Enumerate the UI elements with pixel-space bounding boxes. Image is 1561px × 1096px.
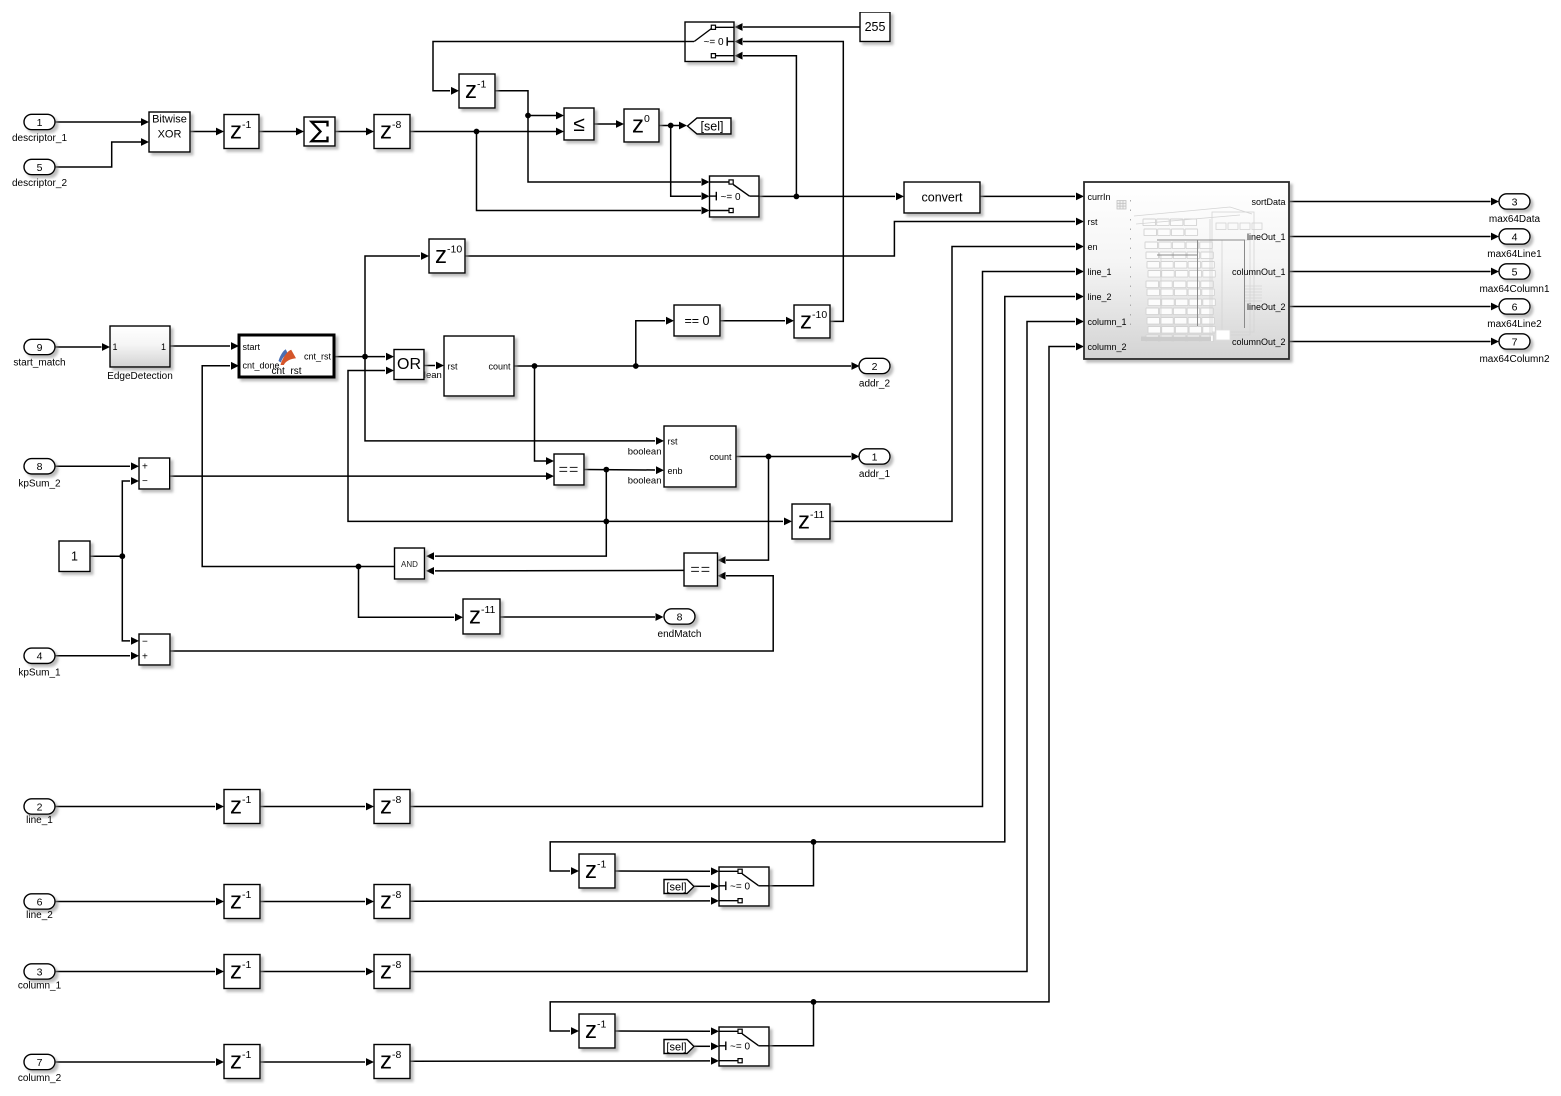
from tag [sel] 1 xyxy=(664,880,694,894)
unit delay z-1 fb1 xyxy=(579,854,615,888)
arrow into OR in1 xyxy=(386,353,394,361)
wire counter1 count to addr_2 xyxy=(514,365,851,367)
arrow into eq-b in1 xyxy=(718,556,726,564)
inport 8 kpSum_2 xyxy=(24,459,55,474)
wire OR to counter1 rst xyxy=(424,365,435,367)
unit delay z-1a xyxy=(224,115,259,149)
arrow into switch2 in2 xyxy=(702,192,710,200)
wire branch down to z-11b xyxy=(359,567,455,618)
svg-text:kpSum_2: kpSum_2 xyxy=(18,479,61,490)
svg-text:start_match: start_match xyxy=(13,358,65,369)
subtract1 block xyxy=(139,458,170,489)
svg-text:endMatch: endMatch xyxy=(658,629,702,640)
wire z-8 r4 to switch4 in3 xyxy=(410,1060,710,1062)
MATLAB function block cnt_rst xyxy=(239,335,334,377)
arrow into z-8 r2 xyxy=(366,898,374,906)
svg-text:max64Data: max64Data xyxy=(1489,214,1541,225)
svg-text:line_2: line_2 xyxy=(1088,292,1112,302)
relational eq-b (mirrored) xyxy=(684,553,718,586)
junction dot z-8a out xyxy=(474,129,480,135)
arrow into z-1fb1 xyxy=(571,867,579,875)
svg-text:2: 2 xyxy=(872,361,878,373)
svg-text:boolean: boolean xyxy=(628,475,662,486)
arrow into endMatch xyxy=(656,613,664,621)
wire branch down to switch2 in2 xyxy=(671,126,701,197)
svg-text:3: 3 xyxy=(1512,196,1518,208)
switch block S3 xyxy=(719,867,769,906)
arrow into LE in1 xyxy=(556,112,564,120)
wire sel2 to switch4 in2 xyxy=(694,1045,710,1047)
arrow into eq-b in2 xyxy=(718,572,726,580)
wire kpSum_2 to subtract1 plus xyxy=(55,465,130,467)
wire cnt_done net left to OR in2 xyxy=(348,371,606,522)
arrow into z-11a xyxy=(784,518,792,526)
from tag [sel] 2 xyxy=(664,1040,694,1054)
arrow into switch4 in1 xyxy=(711,1027,719,1035)
junction dot convert wire xyxy=(794,194,800,200)
unit delay z-1 r3 xyxy=(224,955,260,989)
svg-text:[sel]: [sel] xyxy=(666,1042,686,1054)
delay z-8 r1 xyxy=(374,790,410,824)
unit delay z-1 r4 xyxy=(224,1045,260,1079)
svg-text:1: 1 xyxy=(113,342,118,352)
svg-text:en: en xyxy=(1088,242,1098,252)
arrow into eq-a in2 xyxy=(546,472,554,480)
inport 3 column_1 xyxy=(24,964,55,979)
wire switch3 out loop xyxy=(769,842,814,886)
arrow into switch3 in2 xyxy=(711,882,719,890)
svg-text:==: == xyxy=(690,562,711,579)
wire z-1 r4 to z-8 r4 xyxy=(260,1061,365,1063)
svg-text:6: 6 xyxy=(37,896,43,908)
subsystem sorter (max64) xyxy=(1084,182,1289,359)
arrow into switch4 in3 xyxy=(711,1057,719,1065)
arrow into column_1 port xyxy=(1076,318,1084,326)
wire z-8a to LE in2 with branch xyxy=(410,131,556,133)
equals zero block xyxy=(674,305,720,336)
arrow into en xyxy=(1076,243,1084,251)
arrow into EdgeDetection xyxy=(102,343,110,351)
svg-text:rst: rst xyxy=(448,362,458,372)
wire LE to z0 xyxy=(594,123,616,125)
arrow into convert xyxy=(896,193,904,201)
svg-text:3: 3 xyxy=(37,966,43,978)
wire z-1 r1 to z-8 r1 xyxy=(260,806,365,808)
arrow into line_2 port xyxy=(1076,293,1084,301)
wire z0 to goto sel xyxy=(659,125,679,127)
svg-text:−: − xyxy=(142,637,148,648)
arrow into switch2 in3 xyxy=(702,207,710,215)
unit delay z-1 fb2 xyxy=(579,1014,615,1048)
wire descriptor_2 to XOR in2 xyxy=(55,142,141,167)
delay z-8 r3 xyxy=(374,955,410,989)
svg-text:8: 8 xyxy=(677,611,683,623)
junction dot cnt_rst out xyxy=(362,354,368,360)
svg-text:count: count xyxy=(488,362,511,372)
svg-text:max64Line1: max64Line1 xyxy=(1487,249,1542,260)
arrow into z-1 r3 xyxy=(216,968,224,976)
svg-text:columnOut_1: columnOut_1 xyxy=(1232,267,1286,277)
svg-text:cnt_rst: cnt_rst xyxy=(271,366,301,377)
arrow into rst xyxy=(1076,218,1084,226)
arrow into z0 xyxy=(616,120,624,128)
wire branch down to eq-b in1 xyxy=(726,457,769,561)
inport 6 line_2 xyxy=(24,894,55,909)
svg-text:column_1: column_1 xyxy=(18,981,62,992)
svg-text:1: 1 xyxy=(37,117,43,129)
wire counter2 count to addr_1 xyxy=(736,456,851,458)
wire convert to currIn xyxy=(980,195,1075,197)
svg-text:XOR: XOR xyxy=(158,129,182,141)
wire cnt_rst out to OR in1 xyxy=(334,356,385,358)
wire lineOut_2 to max64Line2 xyxy=(1289,306,1491,308)
outport 7 max64Column2 xyxy=(1499,334,1530,349)
svg-text:6: 6 xyxy=(1512,301,1518,313)
wire loop right to column_2 port xyxy=(814,347,1076,1002)
arrow into XOR in2 xyxy=(141,138,149,146)
svg-text:kpSum_1: kpSum_1 xyxy=(18,668,61,679)
wire 255 to switch1 in1 xyxy=(743,26,860,28)
junction dot eq-a out xyxy=(603,467,609,473)
svg-text:[sel]: [sel] xyxy=(666,882,686,894)
svg-text:255: 255 xyxy=(865,20,886,34)
wire sel1 to switch3 in2 xyxy=(694,885,710,887)
wire switch2 out to convert xyxy=(759,195,895,197)
arrow into switch1 in3 xyxy=(735,52,743,60)
svg-text:currIn: currIn xyxy=(1088,192,1111,202)
svg-text:descriptor_2: descriptor_2 xyxy=(12,178,67,189)
svg-text:convert: convert xyxy=(922,191,964,205)
arrow into OR in2 xyxy=(386,367,394,375)
wire AND out to cnt_done xyxy=(202,366,394,567)
svg-text:~= 0: ~= 0 xyxy=(730,1042,750,1053)
svg-text:+: + xyxy=(142,462,148,473)
wire XOR to z-1a xyxy=(190,131,216,133)
wire branch up to switch1 in3 xyxy=(743,56,796,197)
wire z-8 r3 to column_1 port xyxy=(410,322,1075,972)
wire branch up to eq0 xyxy=(636,321,665,366)
goto tag [sel] xyxy=(688,118,732,134)
svg-text:7: 7 xyxy=(37,1057,43,1069)
arrow into addr_2 xyxy=(852,362,860,370)
delay z0 xyxy=(624,109,659,142)
wire branch down to subtract2 minus xyxy=(122,556,130,641)
arrow into Sum xyxy=(296,128,304,136)
junction dot cnt_done net xyxy=(603,519,609,525)
svg-text:addr_1: addr_1 xyxy=(859,469,891,480)
arrow into subtract2 plus xyxy=(131,652,139,660)
wire eq0 to z-10b xyxy=(720,320,785,322)
svg-text:lineOut_2: lineOut_2 xyxy=(1247,302,1286,312)
sum block Sigma xyxy=(304,117,335,146)
svg-text:cnt_rst: cnt_rst xyxy=(304,352,332,362)
arrow into z-1fb2 xyxy=(571,1027,579,1035)
arrow into goto sel xyxy=(679,122,687,130)
wire branch up to z-10a xyxy=(365,256,420,357)
svg-text:lineOut_1: lineOut_1 xyxy=(1247,232,1286,242)
outport 5 max64Column1 xyxy=(1499,264,1530,279)
wire z-11a out to en xyxy=(830,247,1075,522)
inport 2 line_1 xyxy=(24,799,55,814)
wire columnOut_1 to max64Column1 xyxy=(1289,271,1491,273)
inport 9 start_match xyxy=(24,339,55,354)
arrow into subtract1 minus xyxy=(131,477,139,485)
arrow into switch3 in3 xyxy=(711,897,719,905)
svg-text:sortData: sortData xyxy=(1251,197,1285,207)
svg-text:4: 4 xyxy=(37,651,43,663)
outport 8 endMatch xyxy=(664,609,695,624)
svg-text:rst: rst xyxy=(1088,217,1098,227)
arrow into AND in1 xyxy=(426,552,434,560)
outport 2 addr_2 xyxy=(859,358,890,373)
svg-text:rst: rst xyxy=(668,437,678,447)
wire switch4 out loop xyxy=(769,1002,814,1046)
svg-text:columnOut_2: columnOut_2 xyxy=(1232,337,1286,347)
arrow into z-1 r2 xyxy=(216,898,224,906)
arrow into max64Column1 xyxy=(1491,268,1499,276)
wire subtract2 out loop to eq-b in2 xyxy=(170,576,774,651)
arrow into z-10a xyxy=(421,252,429,260)
delay z-8a xyxy=(374,115,410,149)
counter2 block xyxy=(664,426,736,487)
wire line_2 to z-1 r2 xyxy=(55,901,215,903)
arrow into z-8a xyxy=(366,128,374,136)
svg-text:2: 2 xyxy=(37,801,43,813)
outport 6 max64Line2 xyxy=(1499,299,1530,314)
wire branch up to subtract1 minus xyxy=(122,481,130,556)
arrow into counter1 rst xyxy=(436,362,444,370)
svg-text:5: 5 xyxy=(1512,266,1518,278)
junction dot z0 out xyxy=(668,123,674,129)
svg-text:8: 8 xyxy=(37,461,43,473)
wire subtract1 to eq-a in2 xyxy=(170,475,546,477)
wire EdgeDetection to start xyxy=(170,345,230,347)
delay z-11a xyxy=(792,504,830,539)
wire branch down from eq-a xyxy=(435,470,606,556)
svg-text:max64Line2: max64Line2 xyxy=(1487,319,1542,330)
arrow into max64Line2 xyxy=(1491,303,1499,311)
svg-text:7: 7 xyxy=(1512,336,1518,348)
arrow into subtract2 minus xyxy=(131,637,139,645)
switch block S1 (mirrored) xyxy=(685,22,734,62)
wire branch down to switch2 in1 xyxy=(528,116,701,183)
inport 1 descriptor_1 xyxy=(24,114,55,129)
outport 4 max64Line1 xyxy=(1499,229,1530,244)
wire eq-b out to AND in2 xyxy=(435,569,684,572)
svg-text:1: 1 xyxy=(872,451,878,463)
junction dot z-1b branch xyxy=(525,113,531,119)
switch block S2 xyxy=(710,176,760,217)
wire cnt_done net right to z-11a xyxy=(606,520,783,522)
junction dot count2 out xyxy=(766,454,772,460)
junction dot switch4 loop xyxy=(811,999,817,1005)
arrow into counter2 enb xyxy=(656,466,664,474)
arrow into eq-a in1 xyxy=(546,457,554,465)
wire loop left to z-1fb1 xyxy=(550,842,813,871)
arrow into z-1 r1 xyxy=(216,803,224,811)
delay z-10a xyxy=(429,239,465,273)
delay z-11b xyxy=(463,599,500,634)
unit delay z-1 r2 xyxy=(224,885,260,919)
wire z-1a to Sum xyxy=(259,131,296,133)
arrow into line_1 port xyxy=(1076,268,1084,276)
svg-text:[sel]: [sel] xyxy=(701,119,724,133)
delay z-10b xyxy=(794,305,830,338)
arrow into z-8 r1 xyxy=(366,803,374,811)
arrow into z-10b xyxy=(786,317,794,325)
arrow into z-1a xyxy=(216,128,224,136)
wire start_match to EdgeDetection xyxy=(55,346,102,348)
wire z-1 r3 to z-8 r3 xyxy=(260,971,365,973)
wire lineOut_1 to max64Line1 xyxy=(1289,236,1491,238)
arrow into subtract1 plus xyxy=(131,462,139,470)
counter1 block xyxy=(444,336,514,396)
wire switch1 out feedback to z-1b xyxy=(433,42,685,91)
arrow into switch4 in2 xyxy=(711,1042,719,1050)
inport 7 column_2 xyxy=(24,1054,55,1069)
wire column_2 to z-1 r4 xyxy=(55,1061,215,1063)
wire branch down to counter2 rst xyxy=(365,357,655,441)
arrow into switch2 in1 xyxy=(702,178,710,186)
svg-text:==: == xyxy=(559,462,580,479)
wire z-10a out to rst xyxy=(465,222,1075,257)
svg-text:1: 1 xyxy=(161,342,166,352)
svg-text:9: 9 xyxy=(37,342,43,354)
block Bitwise XOR xyxy=(149,112,190,152)
svg-text:start: start xyxy=(243,342,261,352)
junction dot const1 xyxy=(119,553,125,559)
wire z-1 r2 to z-8 r2 xyxy=(260,901,365,903)
unit delay z-1b xyxy=(459,74,495,108)
arrow into addr_1 xyxy=(852,453,860,461)
arrow into max64Line1 xyxy=(1491,233,1499,241)
constant 255 xyxy=(860,12,890,42)
arrow into switch3 in1 xyxy=(711,867,719,875)
junction dot count1 b xyxy=(633,363,639,369)
wire descriptor_1 to XOR in1 xyxy=(55,121,141,123)
svg-text:column_1: column_1 xyxy=(1088,317,1127,327)
wire z-8 r1 to line_1 port xyxy=(410,272,1075,807)
constant 1 block xyxy=(59,541,90,572)
wire eq-a out to counter2 enb xyxy=(584,469,655,472)
arrow into z-8 r4 xyxy=(366,1058,374,1066)
svg-text:~= 0: ~= 0 xyxy=(703,37,723,48)
arrow into AND in2 xyxy=(426,567,434,575)
arrow into eq0 xyxy=(666,317,674,325)
wire branch down to eq-a in1 xyxy=(535,366,547,461)
svg-text:line_1: line_1 xyxy=(26,815,53,826)
subtract2 block xyxy=(139,634,170,665)
wire kpSum_1 to subtract2 plus xyxy=(55,655,130,657)
svg-text:AND: AND xyxy=(401,560,418,569)
svg-text:max64Column2: max64Column2 xyxy=(1479,354,1549,365)
arrow into switch1 in2 xyxy=(735,38,743,46)
arrow into counter2 rst xyxy=(656,437,664,445)
junction dot AND out xyxy=(356,564,362,570)
arrow into start xyxy=(231,342,239,350)
svg-text:line_1: line_1 xyxy=(1088,267,1112,277)
arrow into z-1 r4 xyxy=(216,1058,224,1066)
wire z-1b out to LE in1 xyxy=(495,91,556,116)
wire z-10b up to switch1 in2 xyxy=(743,42,843,322)
svg-text:5: 5 xyxy=(37,162,43,174)
arrow into cnt_done xyxy=(231,362,239,370)
switch block S4 xyxy=(719,1027,769,1066)
svg-text:count: count xyxy=(709,452,732,462)
svg-text:enb: enb xyxy=(668,466,683,476)
delay z-8 r4 xyxy=(374,1045,410,1079)
svg-text:column_2: column_2 xyxy=(1088,342,1127,352)
wire loop right to line_2 port xyxy=(814,297,1076,842)
wire columnOut_2 to max64Column2 xyxy=(1289,341,1491,343)
junction dot count1 a xyxy=(532,363,538,369)
svg-text:addr_2: addr_2 xyxy=(859,379,891,390)
delay z-8 r2 xyxy=(374,885,410,919)
outport 1 addr_1 xyxy=(859,449,890,464)
arrow into column_2 port xyxy=(1076,343,1084,351)
logic OR block xyxy=(394,350,424,380)
svg-text:OR: OR xyxy=(397,356,421,373)
outport 3 max64Data xyxy=(1499,194,1530,209)
arrow into max64Data xyxy=(1491,198,1499,206)
svg-text:column_2: column_2 xyxy=(18,1073,62,1084)
wire z-8 r2 to switch3 in3 xyxy=(410,900,710,902)
svg-text:== 0: == 0 xyxy=(684,314,709,328)
arrow into LE in2 xyxy=(556,128,564,136)
svg-text:line_2: line_2 xyxy=(26,910,53,921)
wire z-1fb1 to switch3 in1 xyxy=(615,870,710,872)
arrow into XOR in1 xyxy=(141,118,149,126)
wire z-1fb2 to switch4 in1 xyxy=(615,1030,710,1032)
svg-text:≤: ≤ xyxy=(573,113,585,136)
logic AND block (mirrored) xyxy=(395,548,425,579)
arrow into z-11b xyxy=(455,613,463,621)
svg-text:+: + xyxy=(142,652,148,663)
inport 5 descriptor_2 xyxy=(24,159,55,174)
svg-text:−: − xyxy=(142,476,148,487)
svg-text:EdgeDetection: EdgeDetection xyxy=(107,371,173,382)
svg-text:Bitwise: Bitwise xyxy=(152,114,187,126)
wire column_1 to z-1 r3 xyxy=(55,971,215,973)
wire line_1 to z-1 r1 xyxy=(55,806,215,808)
wire branch down to switch2 in3 xyxy=(477,132,702,211)
junction dot switch3 loop xyxy=(811,839,817,845)
arrow into currIn xyxy=(1076,193,1084,201)
svg-text:1: 1 xyxy=(71,550,78,564)
arrow into max64Column2 xyxy=(1491,338,1499,346)
arrow into z-8 r3 xyxy=(366,968,374,976)
svg-text:descriptor_1: descriptor_1 xyxy=(12,133,67,144)
svg-text:boolean: boolean xyxy=(628,447,662,458)
svg-text:max64Column1: max64Column1 xyxy=(1479,284,1549,295)
wire z-11b to endMatch xyxy=(500,616,655,618)
inport 4 kpSum_1 xyxy=(24,648,55,663)
wire loop left to z-1fb2 xyxy=(550,1002,813,1031)
wire const1 out xyxy=(90,555,122,557)
relational eq-a xyxy=(554,454,584,485)
arrow into switch1 in1 xyxy=(735,23,743,31)
svg-text:4: 4 xyxy=(1512,231,1518,243)
arrow into z-1b xyxy=(451,87,459,95)
subsystem EdgeDetection xyxy=(110,326,170,367)
wire sortData to max64Data xyxy=(1289,201,1491,203)
convert block xyxy=(904,182,980,213)
relational LE xyxy=(564,108,594,140)
unit delay z-1 r1 xyxy=(224,790,260,824)
svg-text:~= 0: ~= 0 xyxy=(720,192,740,203)
svg-text:~= 0: ~= 0 xyxy=(730,882,750,893)
wire Sum to z-8a xyxy=(335,131,366,133)
